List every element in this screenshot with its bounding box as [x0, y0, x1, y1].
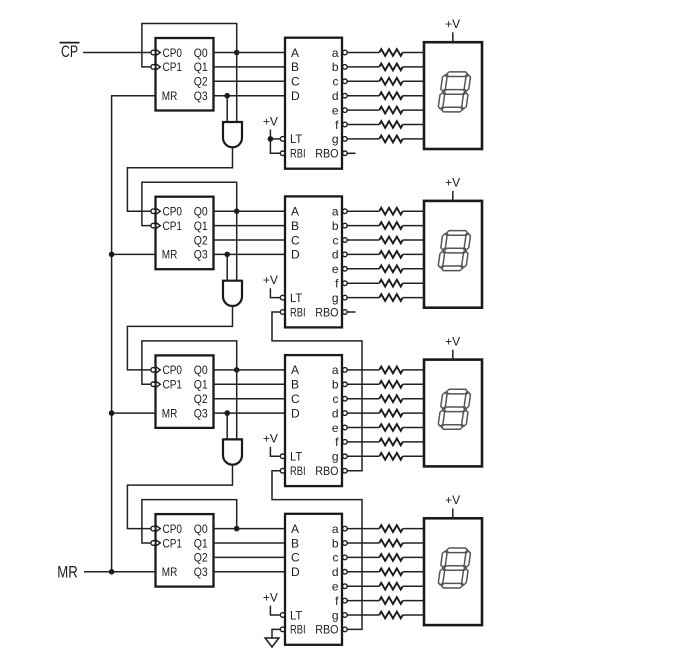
wire resistor R6 to display (stage 1): [403, 124, 424, 126]
counter U4a (decade counter, digit 4): [156, 514, 214, 587]
wire c output to resistor (stage 3): [347, 398, 379, 400]
pin bubble LT U2b: [280, 295, 285, 300]
pin bubble e U4b: [343, 584, 348, 589]
resistor R25: [379, 568, 402, 575]
svg-text:CP0: CP0: [163, 46, 183, 60]
wire Q0 to A (stage 2): [214, 210, 286, 212]
clock bubble CP0 U1a: [151, 50, 156, 55]
pin bubble e U3b: [343, 425, 348, 430]
svg-text:b: b: [332, 536, 339, 550]
wire resistor R1 to display (stage 1): [403, 52, 424, 54]
wire MR bus to MR pin (stage 2): [112, 253, 156, 255]
seven-segment digit figure DS1: [438, 72, 472, 112]
wire Q0 feedback to CP1 (stage 4): [142, 500, 237, 543]
pin bubble RBO U3b: [343, 468, 348, 473]
svg-text:LT: LT: [290, 132, 303, 146]
wire resistor R18 to display (stage 3): [403, 412, 424, 414]
display DS1 (7-segment, digit 1): [424, 42, 482, 149]
wire resistor R13 to display (stage 2): [403, 282, 424, 284]
junction Q3 node (stage 2): [224, 252, 230, 258]
wire Q2 to C (stage 2): [214, 239, 286, 241]
wire e output to resistor (stage 2): [347, 268, 379, 270]
wire e output to resistor (stage 3): [347, 427, 379, 429]
wire gate G1 output to CP0 of stage 2: [127, 147, 232, 211]
svg-text:g: g: [332, 608, 339, 622]
resistor R4: [379, 92, 402, 99]
svg-text:CP1: CP1: [163, 219, 183, 233]
pin bubble f U3b: [343, 440, 348, 445]
svg-text:CP: CP: [61, 42, 78, 61]
svg-text:C: C: [291, 233, 300, 247]
wire b output to resistor (stage 4): [347, 542, 379, 544]
wire resistor R28 to display (stage 4): [403, 614, 424, 616]
svg-text:CP1: CP1: [163, 536, 183, 550]
svg-text:Q1: Q1: [194, 219, 208, 233]
wire g output to resistor (stage 1): [347, 138, 379, 140]
wire +V to LT (stage 4): [270, 606, 280, 615]
wire Q1 to B (stage 3): [214, 383, 286, 385]
pin bubble f U4b: [343, 598, 348, 603]
pin bubble d U4b: [343, 570, 348, 575]
junction Q0 node (stage 3): [234, 367, 240, 373]
display DS3 (7-segment, digit 3): [424, 360, 482, 467]
svg-text:+V: +V: [263, 590, 278, 604]
svg-text:RBI: RBI: [290, 305, 306, 319]
pin bubble c U3b: [343, 396, 348, 401]
wire b output to resistor (stage 1): [347, 66, 379, 68]
svg-text:Q3: Q3: [194, 565, 208, 579]
junction Q0 node (stage 2): [234, 208, 240, 214]
resistor R18: [379, 410, 402, 417]
resistor R21: [379, 453, 402, 460]
svg-text:D: D: [291, 248, 300, 262]
svg-text:CP0: CP0: [163, 522, 183, 536]
wire Q0 to AND gate input (stage 1): [236, 53, 238, 123]
resistor R27: [379, 597, 402, 604]
svg-text:Q0: Q0: [194, 522, 208, 536]
node CP input label (inverted clock): [60, 42, 80, 61]
wire Q3 to AND gate input (stage 2): [226, 254, 228, 280]
wire Q0 feedback to CP1 (stage 2): [142, 182, 237, 225]
pin bubble LT U4b: [280, 613, 285, 618]
pin bubble g U1b: [343, 137, 348, 142]
resistor R9: [379, 222, 402, 229]
resistor R24: [379, 554, 402, 561]
pin bubble c U1b: [343, 79, 348, 84]
pin bubble a U3b: [343, 368, 348, 373]
svg-text:A: A: [291, 46, 299, 60]
wire resistor R8 to display (stage 2): [403, 210, 424, 212]
wire a output to resistor (stage 3): [347, 369, 379, 371]
pin bubble a U1b: [343, 50, 348, 55]
pin bubble RBI U1b: [280, 151, 285, 156]
resistor R13: [379, 280, 402, 287]
wire f output to resistor (stage 1): [347, 124, 379, 126]
svg-text:+V: +V: [263, 114, 278, 128]
wire resistor R4 to display (stage 1): [403, 95, 424, 97]
clock bubble CP1 U2a: [151, 223, 156, 228]
wire Q0 to AND gate input (stage 3): [236, 370, 238, 440]
pin bubble RBI U4b: [280, 627, 285, 632]
junction +V LT/RBI (stage 1): [268, 136, 274, 142]
pin bubble RBO U1b: [343, 151, 348, 156]
svg-text:d: d: [332, 565, 339, 579]
pin bubble g U4b: [343, 613, 348, 618]
pin bubble g U3b: [343, 454, 348, 459]
resistor R23: [379, 540, 402, 547]
pin bubble b U1b: [343, 65, 348, 70]
wire resistor R17 to display (stage 3): [403, 398, 424, 400]
wire Q3 to D (stage 1): [214, 95, 286, 97]
resistor R22: [379, 525, 402, 532]
seven-segment digit figure DS4: [438, 548, 472, 588]
clock bubble CP1 U3a: [151, 382, 156, 387]
wire resistor R27 to display (stage 4): [403, 600, 424, 602]
svg-text:B: B: [291, 536, 299, 550]
svg-text:C: C: [291, 551, 300, 565]
svg-text:Q1: Q1: [194, 60, 208, 74]
svg-text:Q1: Q1: [194, 378, 208, 392]
wire Q2 to C (stage 3): [214, 398, 286, 400]
decoder U3b (BCD to 7-segment): [285, 355, 342, 486]
wire resistor R24 to display (stage 4): [403, 556, 424, 558]
svg-text:e: e: [332, 262, 339, 276]
svg-text:c: c: [333, 551, 339, 565]
wire d output to resistor (stage 2): [347, 253, 379, 255]
svg-text:c: c: [333, 392, 339, 406]
ground symbol: [265, 638, 279, 647]
svg-text:b: b: [332, 378, 339, 392]
pin bubble d U2b: [343, 252, 348, 257]
wire resistor R5 to display (stage 1): [403, 109, 424, 111]
pin bubble f U2b: [343, 281, 348, 286]
svg-text:D: D: [291, 406, 300, 420]
svg-text:d: d: [332, 248, 339, 262]
pin bubble c U4b: [343, 555, 348, 560]
svg-text:LT: LT: [290, 608, 303, 622]
clock bubble CP1 U1a: [151, 65, 156, 70]
svg-text:Q2: Q2: [194, 233, 208, 247]
clock bubble CP0 U3a: [151, 368, 156, 373]
wire +V to display DS1: [452, 32, 454, 42]
svg-text:Q3: Q3: [194, 89, 208, 103]
svg-text:RBI: RBI: [290, 464, 306, 478]
svg-text:g: g: [332, 450, 339, 464]
svg-text:D: D: [291, 565, 300, 579]
pin bubble RBI U3b: [280, 468, 285, 473]
svg-text:b: b: [332, 60, 339, 74]
svg-text:e: e: [332, 421, 339, 435]
wire e output to resistor (stage 1): [347, 109, 379, 111]
wire resistor R11 to display (stage 2): [403, 253, 424, 255]
wire Q3 to D (stage 3): [214, 412, 286, 414]
wire Q3 to D (stage 2): [214, 253, 286, 255]
resistor R20: [379, 439, 402, 446]
wire RBI stage 2 from RBO stage 3: [272, 312, 362, 471]
pin bubble b U3b: [343, 382, 348, 387]
svg-text:B: B: [291, 219, 299, 233]
svg-text:Q1: Q1: [194, 536, 208, 550]
wire resistor R20 to display (stage 3): [403, 441, 424, 443]
wire Q0 to A (stage 3): [214, 369, 286, 371]
resistor R2: [379, 64, 402, 71]
resistor R16: [379, 381, 402, 388]
svg-text:Q2: Q2: [194, 75, 208, 89]
wire c output to resistor (stage 4): [347, 556, 379, 558]
wire resistor R16 to display (stage 3): [403, 383, 424, 385]
wire resistor R26 to display (stage 4): [403, 585, 424, 587]
AND gate G2 (count-9 detect): [223, 281, 242, 306]
svg-text:b: b: [332, 219, 339, 233]
svg-text:d: d: [332, 406, 339, 420]
wire +V to LT (stage 2): [270, 288, 280, 297]
pin bubble b U2b: [343, 223, 348, 228]
resistor R19: [379, 424, 402, 431]
svg-text:a: a: [332, 363, 339, 377]
wire MR bus (master reset rail): [112, 96, 156, 572]
svg-text:CP1: CP1: [163, 60, 183, 74]
pin bubble f U1b: [343, 122, 348, 127]
junction Q3 node (stage 3): [224, 410, 230, 416]
wire Q3 to D (stage 4): [214, 571, 286, 573]
clock bubble CP0 U4a: [151, 526, 156, 531]
wire Q0 to A (stage 1): [214, 52, 286, 54]
wire Q2 to C (stage 1): [214, 80, 286, 82]
svg-text:A: A: [291, 205, 299, 219]
svg-text:Q3: Q3: [194, 248, 208, 262]
svg-text:+V: +V: [445, 493, 460, 507]
wire Q0 feedback to CP1 (stage 3): [142, 341, 237, 384]
resistor R12: [379, 265, 402, 272]
wire resistor R3 to display (stage 1): [403, 80, 424, 82]
wire resistor R12 to display (stage 2): [403, 268, 424, 270]
wire g output to resistor (stage 3): [347, 455, 379, 457]
resistor R8: [379, 208, 402, 215]
wire resistor R19 to display (stage 3): [403, 427, 424, 429]
svg-text:A: A: [291, 522, 299, 536]
wire Q3 to AND gate input (stage 1): [226, 96, 228, 122]
svg-text:a: a: [332, 46, 339, 60]
svg-text:A: A: [291, 363, 299, 377]
resistor R11: [379, 251, 402, 258]
svg-text:CP0: CP0: [163, 205, 183, 219]
wire Q0 to A (stage 4): [214, 528, 286, 530]
wire RBI to ground (stage 4): [272, 629, 280, 638]
junction MR bus (stage 3): [109, 410, 115, 416]
pin bubble a U4b: [343, 526, 348, 531]
pin bubble RBO U4b: [343, 627, 348, 632]
svg-text:+V: +V: [445, 176, 460, 190]
wire +V to LT and RBI (stage 1): [270, 130, 280, 154]
counter U2a (decade counter, digit 2): [156, 197, 214, 270]
wire Q1 to B (stage 2): [214, 225, 286, 227]
svg-text:MR: MR: [162, 248, 178, 262]
resistor R3: [379, 78, 402, 85]
svg-text:CP0: CP0: [163, 363, 183, 377]
wire RBO stub (stage 2): [347, 311, 355, 313]
pin bubble b U4b: [343, 541, 348, 546]
svg-text:g: g: [332, 291, 339, 305]
wire d output to resistor (stage 3): [347, 412, 379, 414]
wire resistor R15 to display (stage 3): [403, 369, 424, 371]
wire Q1 to B (stage 1): [214, 66, 286, 68]
svg-text:C: C: [291, 75, 300, 89]
resistor R1: [379, 49, 402, 56]
pin bubble LT U3b: [280, 454, 285, 459]
svg-text:+V: +V: [263, 273, 278, 287]
svg-text:B: B: [291, 60, 299, 74]
wire resistor R10 to display (stage 2): [403, 239, 424, 241]
pin bubble e U2b: [343, 267, 348, 272]
wire resistor R21 to display (stage 3): [403, 455, 424, 457]
wire Q2 to C (stage 4): [214, 556, 286, 558]
wire b output to resistor (stage 2): [347, 225, 379, 227]
svg-text:MR: MR: [162, 406, 178, 420]
pin bubble d U1b: [343, 93, 348, 98]
pin bubble c U2b: [343, 238, 348, 243]
resistor R28: [379, 612, 402, 619]
clock bubble CP1 U4a: [151, 541, 156, 546]
pin bubble RBI U2b: [280, 310, 285, 315]
display DS4 (7-segment, digit 4): [424, 518, 482, 625]
svg-text:MR: MR: [162, 89, 178, 103]
pin bubble LT U1b: [280, 137, 285, 142]
wire b output to resistor (stage 3): [347, 383, 379, 385]
counter U1a (decade counter, digit 1): [156, 38, 214, 111]
junction Q0 node (stage 1): [234, 50, 240, 56]
pin bubble a U2b: [343, 209, 348, 214]
svg-text:a: a: [332, 522, 339, 536]
wire g output to resistor (stage 2): [347, 297, 379, 299]
svg-text:Q2: Q2: [194, 551, 208, 565]
wire c output to resistor (stage 1): [347, 80, 379, 82]
junction MR bus (stage 2): [109, 252, 115, 258]
wire +V to LT (stage 3): [270, 447, 280, 456]
wire Q3 to AND gate input (stage 3): [226, 413, 228, 439]
seven-segment digit figure DS2: [438, 231, 472, 271]
pin bubble e U1b: [343, 108, 348, 113]
svg-text:e: e: [332, 103, 339, 117]
svg-text:Q2: Q2: [194, 392, 208, 406]
svg-text:Q0: Q0: [194, 46, 208, 60]
resistor R6: [379, 121, 402, 128]
wire RBO stub (stage 1): [347, 152, 355, 154]
wire d output to resistor (stage 1): [347, 95, 379, 97]
svg-text:D: D: [291, 89, 300, 103]
svg-text:Q0: Q0: [194, 205, 208, 219]
resistor R26: [379, 583, 402, 590]
wire g output to resistor (stage 4): [347, 614, 379, 616]
svg-text:e: e: [332, 580, 339, 594]
svg-text:LT: LT: [290, 450, 303, 464]
svg-text:a: a: [332, 205, 339, 219]
wire a output to resistor (stage 2): [347, 210, 379, 212]
wire a output to resistor (stage 1): [347, 52, 379, 54]
wire resistor R25 to display (stage 4): [403, 571, 424, 573]
resistor R14: [379, 294, 402, 301]
decoder U2b (BCD to 7-segment): [285, 196, 342, 327]
svg-text:RBO: RBO: [315, 305, 338, 319]
wire resistor R22 to display (stage 4): [403, 528, 424, 530]
wire resistor R2 to display (stage 1): [403, 66, 424, 68]
wire f output to resistor (stage 3): [347, 441, 379, 443]
wire +V to display DS4: [452, 508, 454, 518]
svg-text:RBI: RBI: [290, 623, 306, 637]
svg-text:B: B: [291, 378, 299, 392]
AND gate G3 (count-9 detect): [223, 439, 242, 464]
resistor R15: [379, 367, 402, 374]
svg-text:MR: MR: [57, 563, 78, 582]
decoder U1b (BCD to 7-segment): [285, 38, 342, 169]
resistor R5: [379, 107, 402, 114]
wire MR label to bus and MR pin (stage 4): [84, 571, 156, 573]
counter U3a (decade counter, digit 3): [156, 355, 214, 428]
wire Q0 feedback to CP1 (stage 1): [142, 24, 237, 67]
wire +V to display DS2: [452, 191, 454, 201]
resistor R7: [379, 136, 402, 143]
wire MR bus to MR pin (stage 3): [112, 412, 156, 414]
wire resistor R9 to display (stage 2): [403, 225, 424, 227]
junction MR bus (stage 4): [109, 569, 115, 575]
svg-text:RBO: RBO: [315, 623, 338, 637]
wire resistor R7 to display (stage 1): [403, 138, 424, 140]
display DS2 (7-segment, digit 2): [424, 201, 482, 308]
svg-text:d: d: [332, 89, 339, 103]
pin bubble d U3b: [343, 411, 348, 416]
svg-text:Q3: Q3: [194, 406, 208, 420]
wire gate G3 output to CP0 of stage 4: [127, 465, 232, 529]
wire e output to resistor (stage 4): [347, 585, 379, 587]
wire Q0 to AND gate input (stage 2): [236, 211, 238, 281]
svg-text:c: c: [333, 75, 339, 89]
wire RBI stage 3 from RBO stage 4: [272, 471, 362, 630]
resistor R10: [379, 237, 402, 244]
wire a output to resistor (stage 4): [347, 528, 379, 530]
svg-text:c: c: [333, 233, 339, 247]
wire c output to resistor (stage 2): [347, 239, 379, 241]
svg-text:C: C: [291, 392, 300, 406]
pin bubble g U2b: [343, 295, 348, 300]
wire f output to resistor (stage 4): [347, 600, 379, 602]
junction Q3 node (stage 1): [224, 93, 230, 99]
junction Q0 node (stage 4): [234, 526, 240, 532]
svg-text:Q0: Q0: [194, 363, 208, 377]
seven-segment digit figure DS3: [438, 389, 472, 429]
wire resistor R14 to display (stage 2): [403, 297, 424, 299]
svg-text:LT: LT: [290, 291, 303, 305]
wire Q1 to B (stage 4): [214, 542, 286, 544]
svg-text:MR: MR: [162, 565, 178, 579]
svg-text:RBO: RBO: [315, 464, 338, 478]
svg-text:CP1: CP1: [163, 378, 183, 392]
AND gate G1 (count-9 detect): [223, 122, 242, 147]
wire resistor R23 to display (stage 4): [403, 542, 424, 544]
wire d output to resistor (stage 4): [347, 571, 379, 573]
svg-text:RBI: RBI: [290, 147, 306, 161]
svg-text:g: g: [332, 132, 339, 146]
resistor R17: [379, 395, 402, 402]
clock bubble CP0 U2a: [151, 209, 156, 214]
pin bubble RBO U2b: [343, 310, 348, 315]
svg-text:+V: +V: [445, 334, 460, 348]
svg-text:+V: +V: [445, 17, 460, 31]
wire gate G2 output to CP0 of stage 3: [127, 306, 232, 370]
decoder U4b (BCD to 7-segment): [285, 514, 342, 645]
svg-text:+V: +V: [263, 432, 278, 446]
wire +V to display DS3: [452, 350, 454, 360]
wire CP input to CP0 (stage 1): [83, 52, 151, 54]
svg-text:RBO: RBO: [315, 147, 338, 161]
